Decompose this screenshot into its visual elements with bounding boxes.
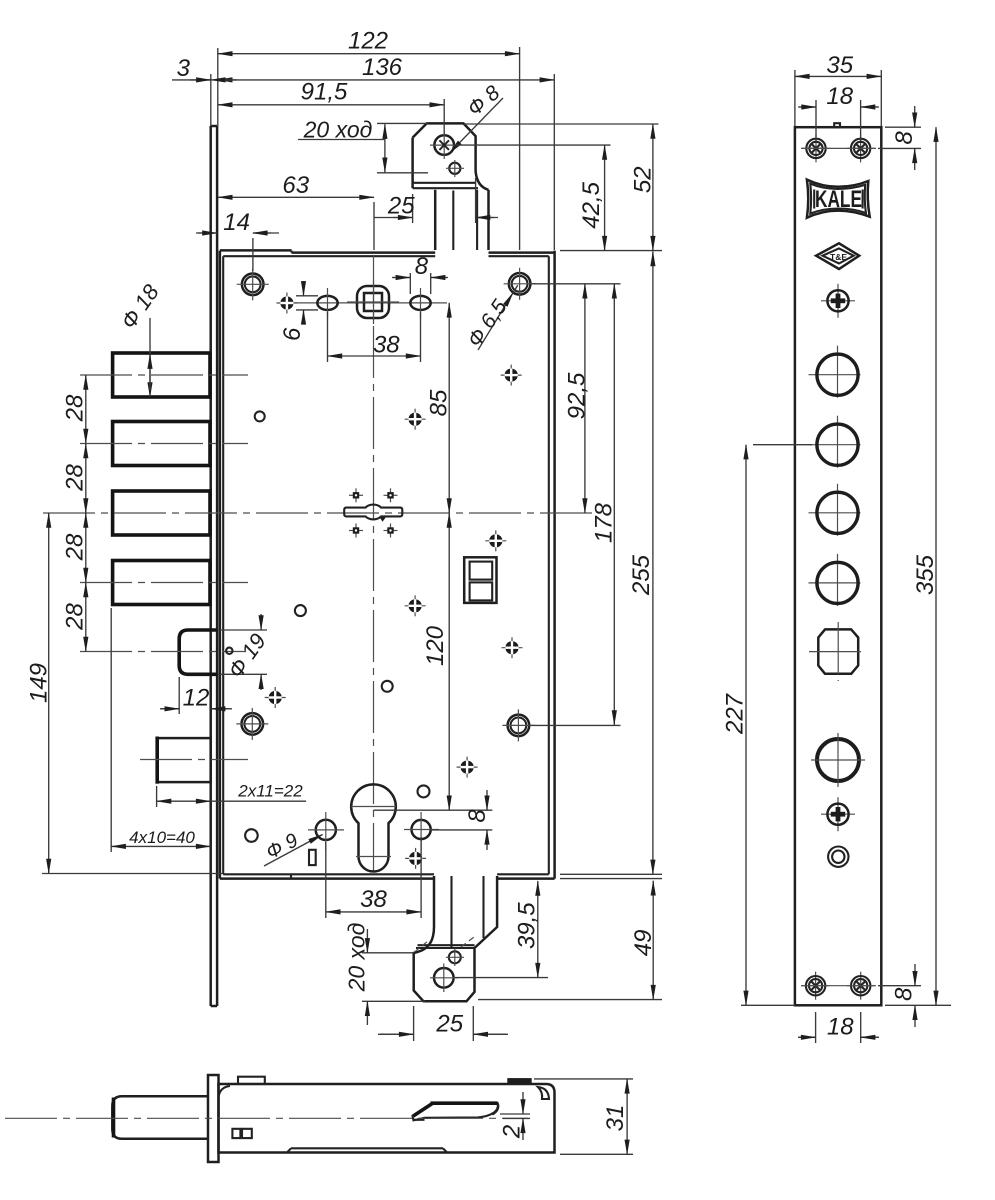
svg-text:31: 31: [602, 1105, 629, 1132]
svg-text:28: 28: [62, 394, 89, 422]
svg-text:149: 149: [26, 663, 53, 703]
svg-text:178: 178: [591, 502, 618, 543]
svg-text:2: 2: [499, 1125, 526, 1139]
svg-text:20 ход: 20 ход: [344, 923, 370, 993]
svg-text:4x10=40: 4x10=40: [129, 828, 195, 847]
svg-text:52: 52: [630, 166, 657, 193]
svg-text:92,5: 92,5: [564, 372, 591, 419]
svg-text:12: 12: [183, 685, 210, 712]
svg-text:63: 63: [282, 172, 309, 199]
svg-text:6: 6: [279, 327, 306, 341]
svg-text:8: 8: [891, 987, 918, 1001]
svg-text:49: 49: [630, 930, 657, 957]
svg-text:39,5: 39,5: [514, 902, 541, 949]
svg-text:18: 18: [826, 83, 853, 110]
svg-text:255: 255: [628, 554, 655, 596]
svg-text:18: 18: [827, 1014, 854, 1041]
svg-text:20 ход: 20 ход: [303, 117, 373, 143]
svg-text:Т&Е: Т&Е: [830, 252, 847, 262]
svg-text:85: 85: [425, 389, 452, 416]
svg-text:28: 28: [62, 533, 89, 561]
svg-text:25: 25: [435, 1011, 463, 1038]
svg-text:42,5: 42,5: [578, 181, 605, 228]
svg-text:8: 8: [891, 131, 918, 145]
svg-text:KALE: KALE: [815, 186, 862, 213]
svg-text:28: 28: [62, 464, 89, 492]
svg-text:355: 355: [912, 554, 939, 595]
svg-text:25: 25: [387, 193, 415, 220]
svg-text:35: 35: [826, 52, 853, 79]
svg-text:8: 8: [464, 809, 491, 823]
svg-text:38: 38: [373, 332, 400, 359]
svg-text:122: 122: [348, 28, 388, 55]
svg-text:14: 14: [223, 209, 250, 236]
svg-text:3: 3: [177, 55, 191, 82]
svg-text:120: 120: [422, 625, 449, 666]
svg-text:227: 227: [722, 692, 749, 735]
svg-text:8: 8: [415, 253, 429, 280]
svg-text:91,5: 91,5: [301, 79, 348, 106]
svg-text:2x11=22: 2x11=22: [237, 782, 303, 801]
svg-text:28: 28: [62, 603, 89, 631]
svg-text:38: 38: [360, 886, 387, 913]
svg-text:136: 136: [362, 54, 403, 81]
